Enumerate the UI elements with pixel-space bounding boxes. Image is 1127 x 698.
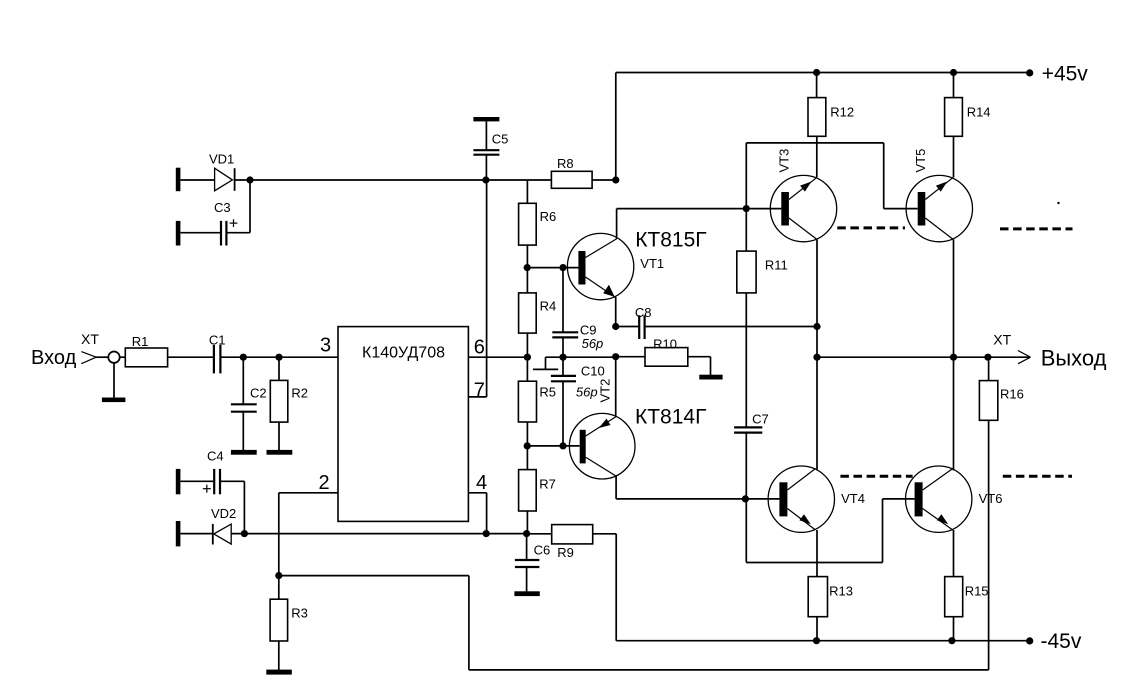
svg-text:C6: C6 <box>534 543 551 558</box>
wire C8 to VT3 emitter line <box>645 326 817 328</box>
ground R3 <box>266 670 292 675</box>
capacitor C7 <box>734 411 769 432</box>
wire input circle to ground <box>113 363 115 398</box>
svg-text:C4: C4 <box>207 449 224 464</box>
node R14 top <box>950 69 957 76</box>
wire R3 to ground <box>278 641 280 670</box>
op-amp U1 К140УД708 <box>338 327 468 522</box>
svg-text:R10: R10 <box>653 336 677 351</box>
transistor VT4 <box>768 466 865 532</box>
svg-text:R14: R14 <box>967 104 991 119</box>
node VT4 base junction <box>742 495 749 502</box>
terminal bar C3 <box>176 221 181 246</box>
svg-text:R16: R16 <box>1000 386 1024 401</box>
svg-text:КТ814Г: КТ814Г <box>635 405 706 428</box>
wire circle to R1 <box>120 356 126 358</box>
transistor VT1 КТ815Г <box>567 229 706 300</box>
svg-text:VT2: VT2 <box>598 379 613 403</box>
node +45 terminal dot <box>1026 69 1033 76</box>
wire to C2 <box>242 357 244 404</box>
dashed link VT6 right <box>1003 475 1072 478</box>
resistor R14 <box>945 73 991 137</box>
node -45 terminal dot <box>1026 637 1033 644</box>
wire pin 4 <box>468 493 486 534</box>
wire under VT4 to VT6 base <box>746 499 914 563</box>
svg-text:R12: R12 <box>830 104 854 119</box>
resistor R11 <box>737 209 788 293</box>
wire VT2 emitter up <box>615 357 617 417</box>
capacitor C9 56p <box>552 323 603 351</box>
wire -45 rail <box>616 640 1029 642</box>
wire to R2 <box>278 357 280 380</box>
wire R11 to C7 <box>745 293 747 428</box>
svg-text:XT: XT <box>993 332 1011 348</box>
svg-text:7: 7 <box>474 380 485 402</box>
wire VT2 lower to VT4 base <box>616 476 745 499</box>
wire terminal to C3 <box>180 232 221 234</box>
wire chevron to input circle <box>96 356 109 358</box>
connector XT input chevron <box>81 352 96 364</box>
capacitor C2 <box>231 385 267 411</box>
svg-text:C1: C1 <box>209 332 226 347</box>
resistor R12 <box>808 73 854 137</box>
wire output line <box>817 356 1030 358</box>
node R6/R4 junction VT1 base <box>524 264 531 271</box>
svg-text:R13: R13 <box>829 583 853 598</box>
capacitor C10 56p <box>551 364 605 400</box>
wire VT3 emitter down to VT4 <box>816 240 818 471</box>
resistor R10 <box>616 336 688 366</box>
resistor R7 <box>519 470 556 511</box>
capacitor C8 <box>616 305 652 339</box>
resistor R9 <box>527 525 593 560</box>
wire terminal to C4 <box>180 480 214 482</box>
wire +45 rail <box>616 73 1030 181</box>
svg-text:6: 6 <box>474 337 485 359</box>
resistor R8 <box>551 156 592 188</box>
svg-text:R15: R15 <box>965 583 989 598</box>
svg-text:C5: C5 <box>492 132 509 147</box>
node junction R2 <box>275 354 282 361</box>
wire VT1 collector <box>617 209 747 239</box>
wire R8 to +45 drop <box>592 179 616 181</box>
wire C2 to ground <box>242 412 244 451</box>
wire R14 to VT5 collector <box>953 136 955 177</box>
svg-text:R8: R8 <box>557 156 574 171</box>
wire VT4 base <box>745 498 779 500</box>
wire VD1 to C5 junction and R8 <box>235 179 552 181</box>
svg-text:VT5: VT5 <box>913 149 928 173</box>
wire VT4 emitter to R13 <box>816 530 818 577</box>
svg-text:C2: C2 <box>250 385 267 400</box>
wire terminal to VD1 <box>180 179 214 181</box>
node junction C1/C2 <box>240 354 247 361</box>
svg-text:К140УД708: К140УД708 <box>362 344 445 361</box>
node R3 feedback junction <box>275 572 282 579</box>
wire feedback bottom path <box>279 420 989 670</box>
svg-text:56p: 56p <box>576 384 598 399</box>
svg-text:Вход: Вход <box>31 347 77 369</box>
svg-text:C8: C8 <box>635 305 652 320</box>
resistor R1 <box>125 334 167 367</box>
wire VT1 emitter <box>615 297 617 327</box>
svg-text:C3: C3 <box>214 200 231 215</box>
svg-text:+45v: +45v <box>1042 62 1089 85</box>
transistor VT6 <box>906 466 1003 532</box>
svg-text:-45v: -45v <box>1041 630 1082 653</box>
wire VT3 base <box>746 208 781 210</box>
wire VT1 base <box>527 267 578 269</box>
diode VD2 <box>211 506 236 545</box>
wire R12 to VT3 collector <box>816 136 818 177</box>
wire R10 to ground <box>688 357 711 375</box>
capacitor C6 <box>515 534 550 592</box>
svg-text:C10: C10 <box>581 364 605 379</box>
terminal bar C4 <box>176 469 181 494</box>
node pin6/R5 junction <box>524 354 531 361</box>
svg-text:R5: R5 <box>539 385 556 400</box>
resistor R5 trimmer <box>518 381 556 422</box>
transistor VT2 КТ814Г <box>569 379 706 479</box>
wire R2 to ground <box>278 422 280 450</box>
node R15 bottom <box>948 637 955 644</box>
node VT1 emitter / C8 <box>612 323 619 330</box>
resistor R13 <box>808 577 853 617</box>
capacitor C4 polarized <box>203 449 224 495</box>
wire R9 to -45 rail <box>593 534 617 641</box>
svg-text:VD2: VD2 <box>211 506 236 521</box>
transistor VT3 <box>770 149 836 242</box>
svg-text:VD1: VD1 <box>209 151 234 166</box>
svg-text:R11: R11 <box>765 257 788 272</box>
wire C9 chain <box>562 268 564 446</box>
svg-text:VT1: VT1 <box>640 256 664 271</box>
connector output chevron <box>1018 351 1031 364</box>
capacitor C1 <box>209 332 226 373</box>
svg-text:VT4: VT4 <box>841 491 865 506</box>
wire R6 chain vertical <box>526 180 528 534</box>
ground C6 <box>514 591 539 596</box>
dashed link VT5 right <box>1000 227 1073 230</box>
node output VT3/VT4 <box>813 354 820 361</box>
capacitor C3 polarized <box>214 200 237 246</box>
wire VD2 line to C6 junction <box>231 533 526 535</box>
node R11 top / VT3 base junction <box>743 205 750 212</box>
wire VT2 base <box>527 445 580 447</box>
wire pin 2 <box>279 493 338 576</box>
wire pin 6 <box>468 356 527 358</box>
wire junction to R3 <box>278 576 280 600</box>
wire terminal to VD2 <box>180 533 212 535</box>
node R7/C6/R9 junction <box>523 530 530 537</box>
node C4 junction <box>241 530 248 537</box>
resistor R3 <box>270 599 308 641</box>
node R10 left junction <box>612 353 619 360</box>
svg-text:XT: XT <box>81 331 99 347</box>
svg-text:R6: R6 <box>540 209 557 224</box>
wire pin 7 supply <box>468 180 486 397</box>
wire VT6 emitter to R15 <box>953 530 955 577</box>
node pin4 junction <box>483 530 490 537</box>
capacitor C5 <box>473 117 508 180</box>
dashed link VT3 VT5 <box>837 226 905 229</box>
resistor R6 <box>519 203 557 245</box>
terminal bar VD2 <box>176 521 181 546</box>
svg-text:56p: 56p <box>582 336 604 351</box>
svg-text:VT6: VT6 <box>979 491 1003 506</box>
node output R16 <box>984 354 991 361</box>
node R13 bottom <box>813 637 820 644</box>
svg-text:2: 2 <box>319 472 330 494</box>
svg-text:C7: C7 <box>752 411 769 426</box>
resistor R15 <box>945 577 989 617</box>
wire R5 wiper tap <box>533 357 616 369</box>
wire VT3 base to VT5 base over-path <box>746 143 917 209</box>
node C8 right junction <box>813 323 820 330</box>
ground input <box>102 398 126 403</box>
node R5/R7 junction VT2 base <box>524 442 531 449</box>
node output VT5/VT6 <box>950 354 957 361</box>
speck <box>1057 202 1059 204</box>
wire R13 to -45 <box>816 617 818 641</box>
node C10 bottom junction <box>559 442 566 449</box>
dashed link VT4 VT6 <box>840 475 912 478</box>
wire C7 to VT4 base node <box>745 433 747 563</box>
svg-text:4: 4 <box>476 472 487 494</box>
svg-text:R3: R3 <box>291 606 308 621</box>
node R12 top <box>813 69 820 76</box>
node C9/C10 mid junction <box>559 354 566 361</box>
svg-text:R1: R1 <box>132 334 149 349</box>
wire R1 to C1 <box>168 356 214 358</box>
node VD1/C3 junction <box>246 176 253 183</box>
diode VD1 <box>209 151 235 191</box>
transistor VT5 <box>906 149 972 242</box>
wire VT5 emitter down to VT6 <box>953 240 955 471</box>
svg-text:R9: R9 <box>557 545 574 560</box>
node C5 junction <box>482 176 489 183</box>
ground R10 <box>699 375 722 380</box>
resistor R2 <box>270 380 308 422</box>
resistor R4 <box>519 293 557 333</box>
ground R2 <box>267 450 293 455</box>
terminal bar VD1 <box>176 168 181 192</box>
svg-text:R4: R4 <box>540 298 557 313</box>
wire C3 up to VD1 line <box>226 180 250 233</box>
node C9 top junction <box>559 264 566 271</box>
svg-text:3: 3 <box>320 334 331 356</box>
ground C2 <box>231 450 257 455</box>
resistor R16 <box>979 357 1023 420</box>
svg-text:VT3: VT3 <box>777 149 792 173</box>
input terminal circle <box>108 352 119 363</box>
svg-text:R7: R7 <box>539 477 556 492</box>
svg-text:Выход: Выход <box>1041 345 1107 370</box>
svg-text:КТ815Г: КТ815Г <box>635 229 706 252</box>
wire R15 to -45 <box>953 617 955 641</box>
node R8 to +45 <box>612 176 619 183</box>
wire C4 down to VD2 line <box>220 481 244 533</box>
wire C1 to op-amp pin 3 <box>220 356 338 358</box>
svg-text:R2: R2 <box>291 385 308 400</box>
